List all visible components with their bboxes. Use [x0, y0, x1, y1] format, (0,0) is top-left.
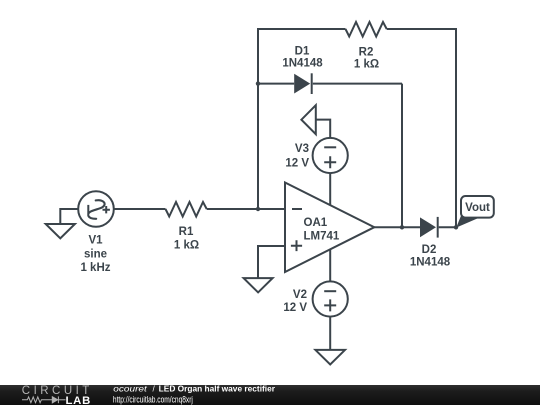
V1 plus terminal mark	[103, 206, 110, 213]
wire right vertical from R2 to output node	[455, 28, 457, 227]
svg-text:ocouret: ocouret	[113, 384, 147, 393]
svg-text:sine: sine	[84, 248, 107, 260]
svg-text:R1: R1	[179, 226, 194, 238]
wire D2 to output node	[439, 226, 456, 228]
voltage source V1	[78, 191, 114, 227]
junction dot Vout node	[454, 225, 458, 229]
op-amp inverting input mark	[292, 208, 302, 210]
node flag Vout	[456, 196, 494, 228]
svg-text:12 V: 12 V	[285, 157, 309, 169]
value label R1	[174, 226, 199, 251]
wire mid vertical from D1 row down to op-amp output	[401, 84, 403, 228]
value label OA1	[304, 217, 340, 242]
ground (rotated) above V3	[301, 105, 315, 134]
wire non-inverting input to ground	[258, 246, 285, 278]
ground for non-inverting input	[244, 278, 273, 292]
ground for V1	[46, 224, 75, 238]
wire V1 negative to ground	[60, 209, 78, 224]
svg-text:12 V: 12 V	[283, 302, 307, 314]
junction dot inverting input node	[256, 207, 260, 211]
resistor R1	[166, 202, 207, 217]
footer bar	[0, 385, 540, 405]
value label V1	[80, 235, 110, 275]
svg-text:1 kΩ: 1 kΩ	[174, 239, 199, 251]
wire V1 to R1	[114, 208, 166, 210]
wire V2 to ground	[329, 317, 331, 351]
svg-text:OA1: OA1	[304, 217, 328, 229]
V3 minus mark	[324, 146, 336, 148]
svg-text:1 kHz: 1 kHz	[80, 262, 110, 274]
value label V2	[283, 289, 307, 314]
svg-text:1 kΩ: 1 kΩ	[354, 59, 379, 71]
wire op-amp V- to V2	[329, 249, 331, 281]
footer title text	[113, 384, 275, 393]
V2 plus mark	[324, 299, 336, 311]
svg-text:http://circuitlab.com/cnq8xrj: http://circuitlab.com/cnq8xrj	[113, 394, 193, 404]
svg-text:LED Organ half wave rectifier: LED Organ half wave rectifier	[159, 384, 275, 393]
svg-text:LM741: LM741	[304, 231, 340, 243]
CircuitLab logo text LAB	[66, 395, 91, 405]
svg-text:D1: D1	[295, 46, 310, 58]
svg-text:1N4148: 1N4148	[282, 58, 323, 70]
wire left vertical inverting node	[257, 28, 259, 209]
diode D2	[420, 217, 438, 238]
junction dot op-amp output node	[400, 225, 404, 229]
V3 plus mark	[324, 156, 336, 168]
footer url text	[113, 394, 193, 404]
svg-text:V2: V2	[293, 289, 307, 301]
value label D1	[282, 46, 323, 70]
op-amp OA1	[285, 183, 374, 273]
wire R1 to inverting input	[207, 208, 285, 210]
svg-text:V1: V1	[88, 235, 103, 247]
voltage source V2	[313, 281, 348, 316]
diode D1	[294, 73, 312, 94]
svg-text:Vout: Vout	[465, 202, 490, 214]
junction dot inverting node at D1 branch	[256, 81, 260, 85]
wire from diode D1 to midpoint vertical	[313, 83, 402, 85]
ground for V2	[315, 350, 345, 365]
value label R2	[354, 47, 379, 71]
svg-text:D2: D2	[422, 244, 437, 256]
svg-text:R2: R2	[359, 47, 374, 59]
svg-text:1N4148: 1N4148	[410, 257, 451, 269]
voltage source V3	[313, 138, 348, 173]
wire V3 to rotated ground	[316, 120, 330, 138]
wire top feedback row right segment	[387, 28, 456, 30]
value label D2	[410, 244, 451, 269]
svg-text:V3: V3	[295, 143, 309, 155]
V1 sine symbol	[88, 200, 104, 219]
svg-text:LAB: LAB	[66, 395, 91, 405]
value label V3	[285, 143, 309, 170]
wire op-amp V+ to V3	[329, 173, 331, 206]
V1 minus terminal mark	[87, 205, 89, 214]
resistor R2	[346, 22, 387, 37]
CircuitLab logo text CIRCUIT	[22, 385, 90, 397]
wire top feedback row left segment	[258, 28, 346, 30]
V2 minus mark	[324, 290, 336, 292]
op-amp non-inverting input mark	[291, 240, 302, 251]
wire from inverting node to diode D1	[258, 83, 294, 85]
CircuitLab logo wire with resistor and diode	[22, 396, 66, 403]
wire op-amp output to D2	[374, 226, 420, 228]
